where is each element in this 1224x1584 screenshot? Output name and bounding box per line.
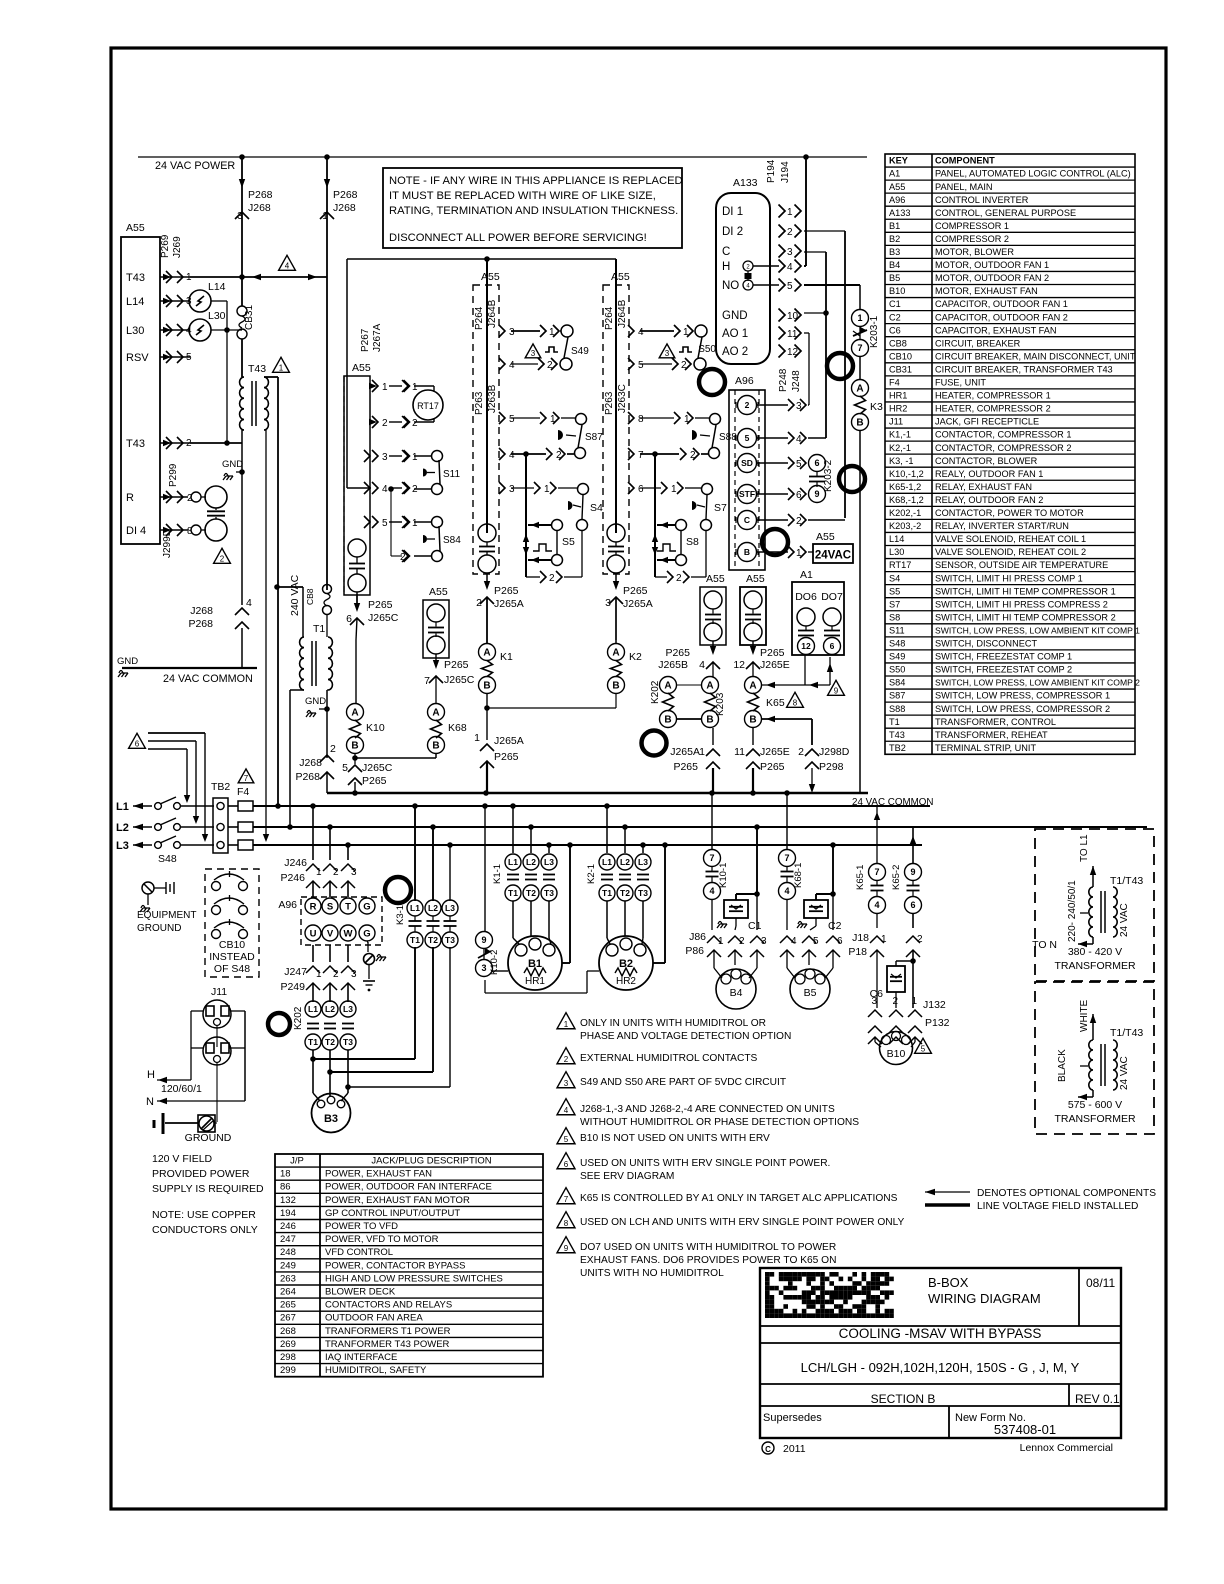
svg-text:TO L1: TO L1: [1079, 834, 1090, 862]
svg-text:246: 246: [280, 1221, 296, 1232]
svg-text:S50: S50: [698, 344, 716, 355]
svg-text:F4: F4: [237, 786, 249, 798]
svg-text:3: 3: [871, 996, 877, 1007]
svg-text:A: A: [351, 708, 358, 719]
svg-text:Lennox Commercial: Lennox Commercial: [1020, 1442, 1113, 1454]
svg-text:HEATER, COMPRESSOR 2: HEATER, COMPRESSOR 2: [935, 404, 1051, 414]
svg-text:S7: S7: [714, 502, 727, 514]
svg-text:P264: P264: [474, 306, 485, 330]
svg-text:B: B: [706, 715, 713, 726]
svg-text:K10-1: K10-1: [718, 863, 729, 888]
svg-text:B: B: [432, 741, 439, 752]
svg-text:B4: B4: [730, 987, 743, 999]
svg-text:S11: S11: [889, 625, 905, 635]
connector J246/P246: [312, 806, 314, 860]
svg-text:120/60/1: 120/60/1: [161, 1083, 202, 1095]
svg-text:SWITCH, LIMIT HI TEMP COMPRESS: SWITCH, LIMIT HI TEMP COMPRESSOR 2: [935, 612, 1116, 622]
svg-text:4: 4: [784, 886, 789, 896]
svg-text:K68-1: K68-1: [793, 863, 804, 888]
svg-text:K1,-1: K1,-1: [889, 430, 911, 440]
svg-text:C2: C2: [889, 312, 901, 322]
svg-text:5: 5: [813, 936, 819, 947]
relay coil K68: [428, 704, 445, 721]
svg-text:1: 1: [322, 210, 328, 222]
svg-text:T1: T1: [889, 717, 900, 727]
svg-text:MOTOR, OUTDOOR FAN 1: MOTOR, OUTDOOR FAN 1: [935, 260, 1049, 270]
svg-text:J265E: J265E: [760, 659, 790, 671]
svg-text:24VAC: 24VAC: [815, 550, 851, 562]
svg-text:1: 1: [718, 936, 724, 947]
equipment ground: [142, 882, 154, 894]
svg-text:247: 247: [280, 1234, 296, 1245]
svg-text:7: 7: [244, 774, 249, 783]
svg-text:L2: L2: [325, 1004, 335, 1014]
svg-text:J263B: J263B: [487, 384, 498, 413]
svg-text:W: W: [344, 928, 353, 939]
svg-text:1: 1: [412, 452, 418, 463]
wire A133 pin5 NO: [804, 284, 860, 286]
svg-text:OF S48: OF S48: [214, 963, 250, 975]
svg-text:HR1: HR1: [889, 391, 907, 401]
svg-text:7: 7: [564, 1195, 569, 1204]
svg-text:P268: P268: [248, 189, 273, 201]
svg-text:6: 6: [638, 484, 644, 495]
svg-text:L14: L14: [889, 534, 904, 544]
svg-text:P263: P263: [474, 391, 485, 415]
solenoid L30: [189, 319, 211, 341]
svg-text:J247: J247: [284, 966, 307, 978]
svg-text:L3: L3: [445, 903, 455, 913]
wire B1 right feed: [569, 845, 571, 963]
notes list: [557, 1013, 575, 1029]
svg-text:K2: K2: [629, 651, 642, 663]
svg-text:4: 4: [509, 360, 515, 371]
connector pin2 loop col2: [655, 576, 667, 578]
svg-text:WIRING DIAGRAM: WIRING DIAGRAM: [928, 1291, 1041, 1306]
svg-text:1: 1: [316, 969, 322, 980]
svg-text:C1: C1: [889, 299, 901, 309]
svg-text:CONTACTOR, POWER TO MOTOR: CONTACTOR, POWER TO MOTOR: [935, 508, 1084, 518]
svg-text:CONTACTOR, BLOWER: CONTACTOR, BLOWER: [935, 456, 1038, 466]
svg-text:L3: L3: [544, 857, 554, 867]
svg-text:J265A: J265A: [494, 735, 524, 747]
svg-text:B10: B10: [889, 286, 905, 296]
svg-text:P265: P265: [760, 761, 785, 773]
svg-text:K2-1: K2-1: [586, 864, 597, 884]
relay contact K68-1: [786, 793, 788, 850]
svg-text:EXTERNAL HUMIDITROL CONTACTS: EXTERNAL HUMIDITROL CONTACTS: [580, 1053, 758, 1064]
svg-text:2: 2: [739, 936, 745, 947]
svg-text:C: C: [765, 1445, 771, 1454]
motor B4: [713, 950, 715, 968]
svg-text:L14: L14: [208, 281, 226, 293]
svg-text:A96: A96: [735, 375, 754, 387]
svg-text:V: V: [327, 928, 334, 939]
wire A96 pin1 to 24VAC box: [808, 551, 813, 553]
svg-text:J265A: J265A: [494, 598, 524, 610]
svg-text:L3: L3: [638, 857, 648, 867]
svg-text:12: 12: [733, 659, 745, 671]
svg-text:CB10: CB10: [889, 351, 912, 361]
svg-text:2: 2: [796, 516, 802, 527]
svg-text:K10: K10: [366, 722, 385, 734]
svg-text:K10,-1,2: K10,-1,2: [889, 469, 924, 479]
svg-text:CAPACITOR, OUTDOOR FAN 2: CAPACITOR, OUTDOOR FAN 2: [935, 312, 1068, 322]
svg-text:B: B: [351, 741, 358, 752]
svg-text:J267A: J267A: [372, 323, 383, 352]
svg-text:3: 3: [351, 867, 357, 878]
svg-text:A: A: [664, 681, 671, 692]
svg-text:B5: B5: [889, 273, 900, 283]
svg-text:J268-1,-3 AND J268-2,-4 ARE CO: J268-1,-3 AND J268-2,-4 ARE CONNECTED ON…: [580, 1104, 835, 1115]
svg-text:P298: P298: [819, 761, 844, 773]
svg-text:C6: C6: [889, 325, 901, 335]
svg-text:SWITCH, LIMIT HI PRESS COMP 1: SWITCH, LIMIT HI PRESS COMP 1: [935, 573, 1083, 583]
svg-text:CB31: CB31: [244, 305, 255, 330]
svg-text:K68,-1,2: K68,-1,2: [889, 495, 924, 505]
svg-text:NOTE - IF ANY WIRE IN THIS APP: NOTE - IF ANY WIRE IN THIS APPLIANCE IS …: [389, 175, 683, 187]
svg-text:CB8: CB8: [889, 338, 907, 348]
svg-text:T1/T43: T1/T43: [1110, 1027, 1143, 1039]
key component table: [885, 154, 1135, 754]
switch S5: [552, 520, 563, 531]
barcode: [765, 1272, 770, 1277]
svg-text:12: 12: [801, 641, 811, 651]
ground from G: [367, 942, 369, 952]
svg-text:J86: J86: [689, 931, 706, 943]
svg-text:2: 2: [787, 227, 793, 238]
thick ring annotations: [827, 353, 853, 379]
svg-text:HEATER, COMPRESSOR 1: HEATER, COMPRESSOR 1: [935, 391, 1051, 401]
svg-text:MOTOR, BLOWER: MOTOR, BLOWER: [935, 247, 1014, 257]
svg-text:RELAY, INVERTER START/RUN: RELAY, INVERTER START/RUN: [935, 521, 1069, 531]
svg-text:T2: T2: [325, 1037, 335, 1047]
svg-text:L1: L1: [410, 903, 420, 913]
svg-text:J265E: J265E: [760, 746, 790, 758]
svg-text:POWER, CONTACTOR BYPASS: POWER, CONTACTOR BYPASS: [325, 1260, 465, 1271]
svg-text:COMPRESSOR 2: COMPRESSOR 2: [935, 234, 1009, 244]
svg-text:P264: P264: [604, 306, 615, 330]
svg-text:L30: L30: [126, 325, 144, 337]
svg-text:K203: K203: [715, 692, 726, 716]
svg-text:2: 2: [382, 418, 388, 429]
svg-text:J265C: J265C: [444, 674, 475, 686]
svg-text:R: R: [310, 901, 317, 912]
svg-text:L2: L2: [526, 857, 536, 867]
svg-text:T2: T2: [526, 888, 536, 898]
svg-text:J132: J132: [923, 999, 946, 1011]
wire P248-4 to C riser: [808, 437, 826, 439]
svg-text:5: 5: [745, 433, 750, 443]
svg-text:5: 5: [509, 414, 515, 425]
svg-text:DISCONNECT ALL POWER BEFORE SE: DISCONNECT ALL POWER BEFORE SERVICING!: [389, 232, 647, 244]
svg-text:TO N: TO N: [1032, 939, 1057, 951]
svg-text:SUPPLY IS REQUIRED: SUPPLY IS REQUIRED: [152, 1183, 264, 1195]
svg-text:TERMINAL STRIP, UNIT: TERMINAL STRIP, UNIT: [935, 743, 1036, 753]
svg-text:H: H: [722, 261, 730, 273]
capacitor C2: [804, 900, 828, 918]
solenoid in P264 box: [478, 524, 496, 542]
svg-text:P265: P265: [673, 761, 698, 773]
svg-text:1: 1: [279, 363, 284, 372]
svg-text:A55: A55: [889, 182, 905, 192]
svg-text:6: 6: [910, 900, 915, 910]
svg-text:MOTOR, EXHAUST FAN: MOTOR, EXHAUST FAN: [935, 286, 1038, 296]
wire K65-1 feed arrow: [874, 812, 880, 820]
svg-text:S49: S49: [889, 652, 905, 662]
svg-text:SEE ERV DIAGRAM: SEE ERV DIAGRAM: [580, 1171, 674, 1182]
svg-text:11: 11: [787, 329, 798, 340]
svg-text:S: S: [327, 901, 333, 912]
svg-text:S4: S4: [590, 502, 603, 514]
svg-text:1: 1: [316, 867, 322, 878]
svg-text:5: 5: [638, 360, 644, 371]
svg-text:A55: A55: [126, 222, 145, 234]
svg-text:3: 3: [787, 247, 793, 258]
relay coil K3: [852, 380, 869, 397]
svg-text:K65: K65: [766, 697, 785, 709]
ground wire from G to earth: [367, 941, 368, 943]
connector J86 pins 4 5 6: [780, 936, 794, 943]
24 VAC COMMON rail: [327, 792, 868, 795]
wires K65 A inputs: [761, 684, 830, 686]
svg-text:PHASE AND VOLTAGE DETECTION OP: PHASE AND VOLTAGE DETECTION OPTION: [580, 1031, 791, 1042]
svg-text:7: 7: [709, 853, 714, 863]
wire A133 pin10 GND: [804, 312, 826, 314]
svg-text:86: 86: [280, 1182, 291, 1193]
svg-text:264: 264: [280, 1287, 296, 1298]
svg-text:8: 8: [638, 414, 644, 425]
svg-text:S5: S5: [562, 536, 575, 548]
svg-text:S5: S5: [889, 586, 900, 596]
svg-text:CONTROL INVERTER: CONTROL INVERTER: [935, 195, 1029, 205]
connector J265A-1/P265: [486, 708, 488, 740]
svg-text:TRANSFORMER: TRANSFORMER: [1054, 960, 1136, 972]
svg-text:T1: T1: [308, 1037, 318, 1047]
svg-text:RSV: RSV: [126, 352, 149, 364]
connector J268-4/P268: [235, 608, 249, 615]
ground wire and symbol: [216, 1026, 218, 1047]
motor B5: [786, 950, 788, 968]
wire P248-3 to AO1 riser: [808, 404, 809, 406]
svg-text:10: 10: [787, 311, 799, 322]
svg-text:269: 269: [280, 1339, 296, 1350]
connector J265A-1 bottom: [712, 728, 714, 745]
svg-text:Supersedes: Supersedes: [763, 1412, 822, 1424]
svg-text:RELAY, OUTDOOR FAN 2: RELAY, OUTDOOR FAN 2: [935, 495, 1043, 505]
svg-text:B-BOX: B-BOX: [928, 1275, 969, 1290]
svg-text:P263: P263: [604, 391, 615, 415]
svg-text:2: 2: [917, 934, 923, 945]
breaker CB10 box: [205, 869, 259, 977]
svg-text:SWITCH, DISCONNECT: SWITCH, DISCONNECT: [935, 639, 1037, 649]
svg-text:CONTROL, GENERAL PURPOSE: CONTROL, GENERAL PURPOSE: [935, 208, 1076, 218]
connector J268-2/P268: [320, 755, 334, 762]
switch S7/S8 circuit: [640, 487, 661, 489]
svg-text:COMPONENT: COMPONENT: [935, 156, 995, 166]
svg-text:NOTE: USE COPPER: NOTE: USE COPPER: [152, 1209, 256, 1221]
svg-text:S7: S7: [889, 599, 900, 609]
svg-text:KEY: KEY: [889, 156, 908, 166]
svg-text:DO7 USED ON UNITS WITH HUMIDIT: DO7 USED ON UNITS WITH HUMIDITROL TO POW…: [580, 1242, 836, 1253]
svg-text:7: 7: [638, 450, 644, 461]
note triangle 2: [214, 548, 231, 563]
connector J247/P249: [312, 945, 314, 962]
svg-text:7: 7: [424, 675, 430, 687]
wire T43 secondary right: [264, 376, 278, 378]
svg-text:T: T: [345, 901, 351, 912]
svg-text:P86: P86: [685, 945, 704, 957]
svg-text:4: 4: [787, 262, 793, 273]
svg-text:SECTION B: SECTION B: [871, 1392, 936, 1406]
sensor RT17: [413, 390, 443, 420]
svg-text:VALVE SOLENOID, REHEAT COIL 2: VALVE SOLENOID, REHEAT COIL 2: [935, 547, 1086, 557]
svg-text:SWITCH, FREEZESTAT COMP 1: SWITCH, FREEZESTAT COMP 1: [935, 652, 1072, 662]
svg-text:LINE VOLTAGE FIELD INSTALLED: LINE VOLTAGE FIELD INSTALLED: [977, 1201, 1138, 1212]
svg-text:IAQ INTERFACE: IAQ INTERFACE: [325, 1352, 397, 1363]
svg-text:P269: P269: [160, 234, 171, 258]
svg-text:3: 3: [382, 452, 388, 463]
svg-text:18: 18: [280, 1169, 291, 1180]
svg-text:P265: P265: [494, 751, 519, 763]
svg-text:K3: K3: [870, 401, 883, 413]
svg-text:TB2: TB2: [889, 743, 906, 753]
svg-text:BLACK: BLACK: [1057, 1049, 1068, 1082]
svg-text:A: A: [483, 648, 490, 659]
svg-text:U: U: [310, 928, 317, 939]
svg-text:DO6: DO6: [795, 591, 817, 603]
svg-text:K68: K68: [448, 722, 467, 734]
svg-text:P299: P299: [168, 463, 179, 487]
svg-text:CIRCUIT, BREAKER: CIRCUIT, BREAKER: [935, 338, 1021, 348]
svg-text:S88: S88: [889, 704, 905, 714]
svg-text:3: 3: [351, 969, 357, 980]
wire K1/K2 coils area: [423, 600, 449, 658]
svg-text:CIRCUIT BREAKER, MAIN DISCONNE: CIRCUIT BREAKER, MAIN DISCONNECT, UNIT: [935, 351, 1136, 361]
panel A55 P267 box: [344, 376, 370, 595]
svg-text:2: 2: [220, 554, 225, 563]
svg-text:A1: A1: [800, 569, 813, 581]
svg-text:220- 240/50/1: 220- 240/50/1: [1067, 880, 1078, 942]
svg-text:6: 6: [830, 641, 835, 651]
relay contact K65-1: [876, 806, 878, 864]
transformer option box 575-600V: [1035, 982, 1154, 1134]
svg-text:11: 11: [734, 746, 745, 758]
svg-text:3: 3: [665, 349, 670, 358]
svg-text:2: 2: [798, 746, 804, 758]
connector J265E-11 bottom: [752, 728, 754, 745]
svg-text:298: 298: [280, 1352, 296, 1363]
svg-text:T43: T43: [126, 272, 145, 284]
legend line voltage: [925, 1203, 970, 1207]
svg-text:J264B: J264B: [617, 299, 628, 328]
svg-text:CAPACITOR, OUTDOOR FAN 1: CAPACITOR, OUTDOOR FAN 1: [935, 299, 1068, 309]
svg-text:9: 9: [910, 867, 915, 877]
switch S84: [432, 517, 443, 528]
svg-text:COOLING -MSAV WITH BYPASS: COOLING -MSAV WITH BYPASS: [839, 1326, 1042, 1341]
svg-text:IT MUST BE REPLACED WITH WIRE: IT MUST BE REPLACED WITH WIRE OF LIKE SI…: [389, 190, 656, 202]
svg-text:P267: P267: [360, 328, 371, 352]
svg-text:OUTDOOR FAN AREA: OUTDOOR FAN AREA: [325, 1313, 423, 1324]
svg-text:DI 4: DI 4: [126, 525, 146, 537]
motor B10: [874, 1037, 876, 1042]
svg-text:TRANSFORMER, REHEAT: TRANSFORMER, REHEAT: [935, 730, 1048, 740]
svg-text:4: 4: [246, 597, 252, 609]
svg-text:B: B: [664, 715, 671, 726]
svg-text:A55: A55: [352, 362, 371, 374]
svg-text:B2: B2: [889, 234, 900, 244]
svg-text:B: B: [856, 418, 863, 429]
svg-text:B: B: [744, 547, 750, 557]
svg-text:A55: A55: [816, 531, 835, 543]
svg-text:SWITCH, LOW PRESS, LOW AMBIENT: SWITCH, LOW PRESS, LOW AMBIENT KIT COMP …: [935, 625, 1140, 635]
24 VAC POWER rail: [138, 156, 867, 158]
svg-text:4: 4: [509, 450, 515, 461]
svg-text:268: 268: [280, 1326, 296, 1337]
svg-text:299: 299: [280, 1365, 296, 1376]
svg-text:L14: L14: [126, 296, 144, 308]
svg-text:2: 2: [476, 597, 482, 609]
svg-text:S48: S48: [889, 639, 905, 649]
svg-text:2: 2: [333, 867, 339, 878]
svg-text:GP CONTROL INPUT/OUTPUT: GP CONTROL INPUT/OUTPUT: [325, 1208, 460, 1219]
wire J86-3 feed from L2: [756, 827, 758, 894]
svg-text:SWITCH, FREEZESTAT COMP 2: SWITCH, FREEZESTAT COMP 2: [935, 665, 1072, 675]
svg-text:CB10: CB10: [219, 939, 245, 951]
svg-text:S84: S84: [443, 535, 461, 546]
relay coil K1: [486, 597, 488, 643]
capacitor C6: [912, 961, 914, 1008]
svg-text:B: B: [483, 681, 490, 692]
svg-text:CONTACTOR, COMPRESSOR 1: CONTACTOR, COMPRESSOR 1: [935, 430, 1071, 440]
svg-text:SWITCH, LIMIT HI TEMP COMPRESS: SWITCH, LIMIT HI TEMP COMPRESSOR 1: [935, 586, 1116, 596]
svg-text:S8: S8: [686, 536, 699, 548]
wire T43-1 row: [190, 276, 327, 278]
svg-text:249: 249: [280, 1260, 296, 1271]
svg-text:3: 3: [481, 963, 486, 973]
svg-text:T43: T43: [126, 438, 145, 450]
svg-text:J11: J11: [211, 986, 227, 998]
ERV feed triangle 6: [129, 733, 146, 748]
svg-text:2: 2: [564, 1055, 569, 1064]
relay contact K10-1: [711, 793, 713, 850]
svg-text:T1: T1: [602, 888, 612, 898]
switch S50 circuit: [640, 330, 674, 332]
svg-text:P265: P265: [760, 647, 785, 659]
relay coil K10: [347, 704, 364, 721]
svg-text:J265B: J265B: [658, 659, 688, 671]
svg-text:T1: T1: [508, 888, 518, 898]
svg-text:380 - 420 V: 380 - 420 V: [1068, 946, 1122, 958]
svg-text:POWER, EXHAUST FAN: POWER, EXHAUST FAN: [325, 1169, 432, 1180]
svg-text:4: 4: [791, 936, 797, 947]
svg-text:1: 1: [382, 382, 388, 393]
wire B1 bottom chain: [484, 980, 486, 993]
svg-text:6: 6: [135, 739, 140, 748]
wire A133 pin3 C: [804, 251, 826, 253]
svg-text:4: 4: [796, 434, 802, 445]
wire J86-6 feed from L3: [832, 845, 834, 894]
svg-text:L2: L2: [116, 822, 129, 834]
svg-text:2: 2: [745, 400, 750, 410]
svg-text:CB31: CB31: [889, 364, 912, 374]
svg-text:USED ON UNITS WITH ERV SINGLE: USED ON UNITS WITH ERV SINGLE POINT POWE…: [580, 1158, 830, 1169]
solenoid A55 box P265/J265E: [740, 587, 766, 645]
svg-text:A: A: [749, 681, 756, 692]
svg-text:ONLY IN UNITS WITH HUMIDITROL: ONLY IN UNITS WITH HUMIDITROL OR: [580, 1018, 766, 1029]
svg-text:2011: 2011: [783, 1443, 806, 1455]
svg-text:K65-1,2: K65-1,2: [889, 482, 921, 492]
